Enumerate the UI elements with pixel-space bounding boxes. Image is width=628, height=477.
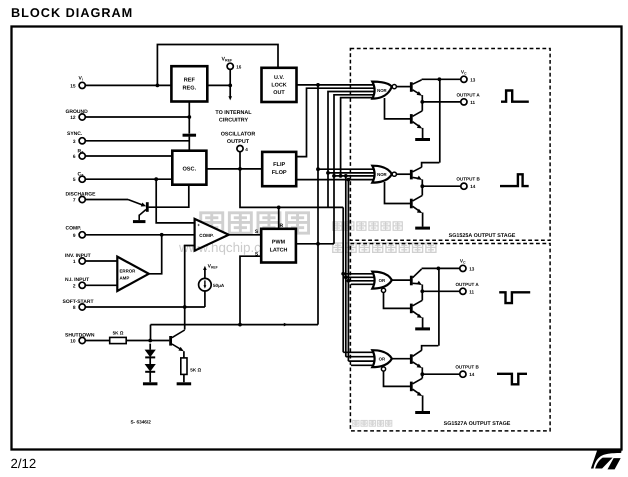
pin output OUTPUT B — [461, 183, 467, 189]
ground shutdown resistor — [177, 382, 192, 385]
wire shutdown set line — [151, 324, 319, 326]
pin output OUTPUT A — [461, 99, 467, 105]
wire sync to osc — [85, 140, 189, 142]
ST logo — [591, 450, 622, 469]
op-amp error amplifier — [117, 257, 149, 291]
transistor Q top OUTPUT A — [410, 82, 413, 92]
svg-text:REF: REF — [184, 77, 196, 83]
dashed box SG1525A output stage — [350, 49, 550, 241]
watermark small row 1 — [333, 222, 342, 230]
wire gate lower output to Q bottom base OUTPUT A — [385, 98, 411, 119]
op-amp comparator COMP — [195, 219, 229, 251]
waveform output A 1527 — [499, 292, 530, 303]
wire comp pin to comparator — [85, 234, 194, 236]
wire bus feed 3 to 1527 stage — [347, 180, 349, 362]
wire pwm latch to NOR A — [334, 95, 375, 244]
svg-text:CIRCUITRY: CIRCUITRY — [219, 118, 249, 124]
pin 13 VC OUTPUT A — [460, 265, 466, 271]
wire comparator output to pwm latch — [229, 234, 262, 236]
svg-text:8: 8 — [73, 305, 76, 311]
wire ref reg bottom to ground — [188, 102, 190, 134]
arrow Vref current source — [204, 269, 206, 278]
pin output OUTPUT B — [460, 371, 466, 377]
svg-text:N.I. INPUT: N.I. INPUT — [65, 277, 89, 283]
wire pwm latch lower S from shutdown line — [240, 256, 261, 324]
svg-text:PWM: PWM — [272, 239, 286, 245]
diode D2 — [149, 357, 151, 364]
wire comparator lower input from soft-start node — [185, 246, 195, 330]
svg-text:9: 9 — [73, 233, 76, 239]
gate OR OUTPUT B — [372, 350, 392, 367]
wire UV lockout output — [297, 84, 375, 86]
svg-text:OR: OR — [379, 357, 386, 362]
wire CT ramp to comparator — [156, 179, 194, 223]
svg-text:+: + — [197, 223, 200, 228]
wire ground bar to osc top — [188, 137, 190, 151]
wire ground — [85, 116, 189, 118]
svg-text:12: 12 — [70, 115, 76, 121]
wire pwm latch to NOR B — [334, 175, 375, 177]
wire shutdown to resistor — [85, 340, 109, 342]
svg-text:OUTPUT A: OUTPUT A — [456, 92, 480, 97]
wire collector OUTPUT A — [413, 80, 422, 84]
wire osc to flip flop — [206, 168, 262, 170]
wire resistor to transistor Q3 base — [126, 340, 169, 342]
block OSC — [172, 151, 206, 185]
svg-text:OUTPUT A: OUTPUT A — [455, 282, 479, 287]
wire emitter to output OUTPUT B — [413, 362, 421, 367]
wire RT to osc — [85, 155, 172, 157]
wire flip flop Q to NOR A — [296, 88, 375, 156]
svg-text:OUTPUT B: OUTPUT B — [455, 365, 479, 370]
wire error amp out to comp line — [149, 235, 162, 274]
ground discharge transistor — [133, 220, 146, 223]
pin 4 oscillator output — [237, 146, 243, 152]
wire flip flop Qbar to NOR B — [296, 179, 375, 181]
ground OUTPUT B — [415, 411, 430, 414]
svg-text:U.V.: U.V. — [274, 75, 284, 81]
svg-text:SG1527A OUTPUT STAGE: SG1527A OUTPUT STAGE — [444, 421, 511, 427]
transistor Q top OUTPUT B — [410, 354, 413, 364]
svg-text:NOR: NOR — [377, 88, 387, 93]
wire Vi top feed to UV lockout — [157, 45, 278, 86]
transistor Q3 shutdown — [169, 336, 172, 346]
svg-text:15: 15 — [70, 83, 76, 89]
wire Vi to ref reg — [85, 84, 171, 86]
svg-text:4: 4 — [245, 147, 248, 152]
transistor Q top OUTPUT B — [410, 170, 413, 180]
svg-text:−: − — [197, 244, 200, 249]
svg-text:TO INTERNAL: TO INTERNAL — [215, 110, 252, 116]
svg-text:50μA: 50μA — [213, 283, 225, 288]
wire ni input to error amp — [85, 284, 117, 286]
wire gate output to Q top base OUTPUT A — [392, 279, 410, 281]
svg-text:SOFT-START: SOFT-START — [63, 299, 94, 305]
svg-text:13: 13 — [470, 77, 476, 82]
wire CT to osc — [85, 178, 172, 180]
svg-text:LOCK: LOCK — [271, 83, 286, 89]
watermark bottom left fragment — [353, 420, 359, 426]
svg-text:R: R — [279, 223, 283, 229]
wire soft-start — [85, 306, 205, 308]
svg-text:ERROR: ERROR — [120, 268, 137, 273]
wire gate lower output to Q bottom base OUTPUT B — [384, 371, 411, 387]
svg-text:5K Ω: 5K Ω — [190, 368, 201, 373]
block FLIP FLOP — [262, 152, 296, 186]
pin output OUTPUT A — [460, 288, 466, 294]
transistor Q discharge — [146, 202, 149, 212]
svg-text:OSCILLATOR: OSCILLATOR — [221, 131, 256, 137]
waveform output B 1525 — [500, 174, 529, 186]
svg-text:FLOP: FLOP — [272, 170, 287, 176]
transistor Q bottom OUTPUT A — [410, 114, 413, 124]
svg-text:REG.: REG. — [182, 85, 196, 91]
svg-text:3: 3 — [73, 139, 76, 145]
block REF REG — [171, 66, 207, 101]
svg-text:FLIP: FLIP — [273, 162, 285, 168]
current source 50uA — [199, 278, 212, 291]
svg-text:OUTPUT: OUTPUT — [227, 139, 250, 145]
svg-text:OSC.: OSC. — [182, 166, 196, 172]
svg-text:1: 1 — [73, 259, 76, 265]
wire VC rail 1525 — [439, 79, 441, 162]
wire collector OUTPUT A — [413, 269, 422, 278]
wire emitter to output OUTPUT A — [413, 90, 421, 95]
svg-text:5: 5 — [73, 177, 76, 183]
wire inv input to error amp — [85, 260, 117, 262]
svg-text:SYNC.: SYNC. — [67, 131, 83, 137]
svg-text:LATCH: LATCH — [270, 247, 288, 253]
ground diodes — [143, 382, 158, 385]
waveform output A 1525 — [501, 91, 529, 102]
wire bus feed 2 to 1527 stage — [345, 176, 347, 357]
wire emitter to output OUTPUT B — [413, 177, 421, 178]
watermark small row 2 — [333, 243, 343, 252]
wire current source to soft-start — [204, 291, 206, 307]
svg-text:COMP.: COMP. — [66, 226, 82, 232]
wire collector OUTPUT B — [413, 350, 422, 356]
svg-text:OUT: OUT — [273, 90, 285, 96]
svg-text:S- 6346/2: S- 6346/2 — [131, 419, 152, 424]
svg-text:2/12: 2/12 — [11, 456, 37, 471]
svg-text:16: 16 — [236, 64, 242, 69]
svg-text:14: 14 — [470, 184, 476, 189]
wire collector OUTPUT B — [413, 167, 422, 172]
waveform output B 1527 — [497, 374, 527, 385]
wire pwm latch output — [296, 243, 334, 245]
gate NOR OUTPUT A — [372, 82, 392, 99]
svg-text:10: 10 — [70, 339, 76, 345]
transistor Q bottom OUTPUT A — [410, 304, 413, 314]
wire VC rail 1527 — [438, 268, 440, 345]
wire ref reg output to Vref — [207, 84, 230, 86]
resistor 5K shutdown emitter — [181, 358, 187, 375]
svg-text:14: 14 — [469, 372, 475, 377]
transistor Q top OUTPUT A — [410, 276, 413, 286]
wire gate lower output to Q bottom base OUTPUT A — [384, 292, 411, 308]
svg-text:OUTPUT B: OUTPUT B — [456, 177, 480, 182]
block UV LOCK OUT — [262, 68, 297, 102]
svg-text:AMP: AMP — [120, 275, 130, 280]
ground ref reg — [183, 134, 197, 137]
svg-text:NOR: NOR — [377, 172, 387, 177]
transistor Q bottom OUTPUT B — [410, 382, 413, 392]
wire discharge collector to osc bottom — [149, 185, 189, 208]
wire inputs OR gate B 1527 — [343, 351, 375, 353]
svg-text:COMP.: COMP. — [199, 233, 213, 238]
diode D1 — [149, 344, 151, 350]
svg-text:5K Ω: 5K Ω — [113, 331, 124, 336]
wire inputs OR gate A 1527 — [343, 273, 375, 275]
gate NOR OUTPUT B — [372, 166, 392, 183]
ground OUTPUT B — [415, 227, 430, 230]
svg-text:OR: OR — [379, 278, 386, 283]
ground OUTPUT A — [415, 327, 430, 330]
wire emitter to output OUTPUT A — [413, 282, 421, 285]
svg-text:INV. INPUT: INV. INPUT — [65, 253, 91, 259]
svg-text:11: 11 — [470, 100, 475, 105]
wire oscillator to NOR A — [328, 92, 375, 208]
svg-text:11: 11 — [469, 289, 474, 294]
wire gate output to Q top base OUTPUT B — [392, 358, 410, 360]
dashed box SG1527A output stage — [350, 244, 550, 431]
svg-text:SG1525A OUTPUT STAGE: SG1525A OUTPUT STAGE — [449, 233, 516, 239]
resistor 5K shutdown series — [110, 337, 127, 343]
wire gate output to Q top base OUTPUT B — [397, 173, 410, 175]
wire bus feed 1 to 1527 stage — [342, 207, 344, 352]
wire discharge to transistor base — [85, 199, 128, 201]
svg-text:13: 13 — [469, 266, 475, 271]
wire NOR A extra input stub — [341, 98, 374, 176]
watermark hqchip big characters — [201, 213, 223, 233]
wire gate output to Q top base OUTPUT A — [397, 86, 410, 88]
pin 13 VC OUTPUT A — [461, 76, 467, 82]
gate OR OUTPUT A — [372, 272, 392, 289]
arrow to internal circuitry — [229, 85, 231, 96]
block PWM LATCH — [261, 229, 296, 263]
wire shutdown emitter to resistor — [183, 351, 185, 358]
wire oscillator blanking — [240, 152, 343, 208]
svg-text:BLOCK DIAGRAM: BLOCK DIAGRAM — [11, 6, 133, 20]
wire UV to NOR B — [317, 85, 319, 325]
wire oscillator to NOR B — [328, 172, 375, 174]
svg-text:6: 6 — [73, 154, 76, 160]
svg-text:7: 7 — [73, 198, 76, 204]
svg-text:2: 2 — [73, 283, 76, 289]
wire gate lower output to Q bottom base OUTPUT B — [385, 182, 411, 204]
transistor Q bottom OUTPUT B — [410, 199, 413, 209]
ground OUTPUT A — [415, 138, 430, 141]
